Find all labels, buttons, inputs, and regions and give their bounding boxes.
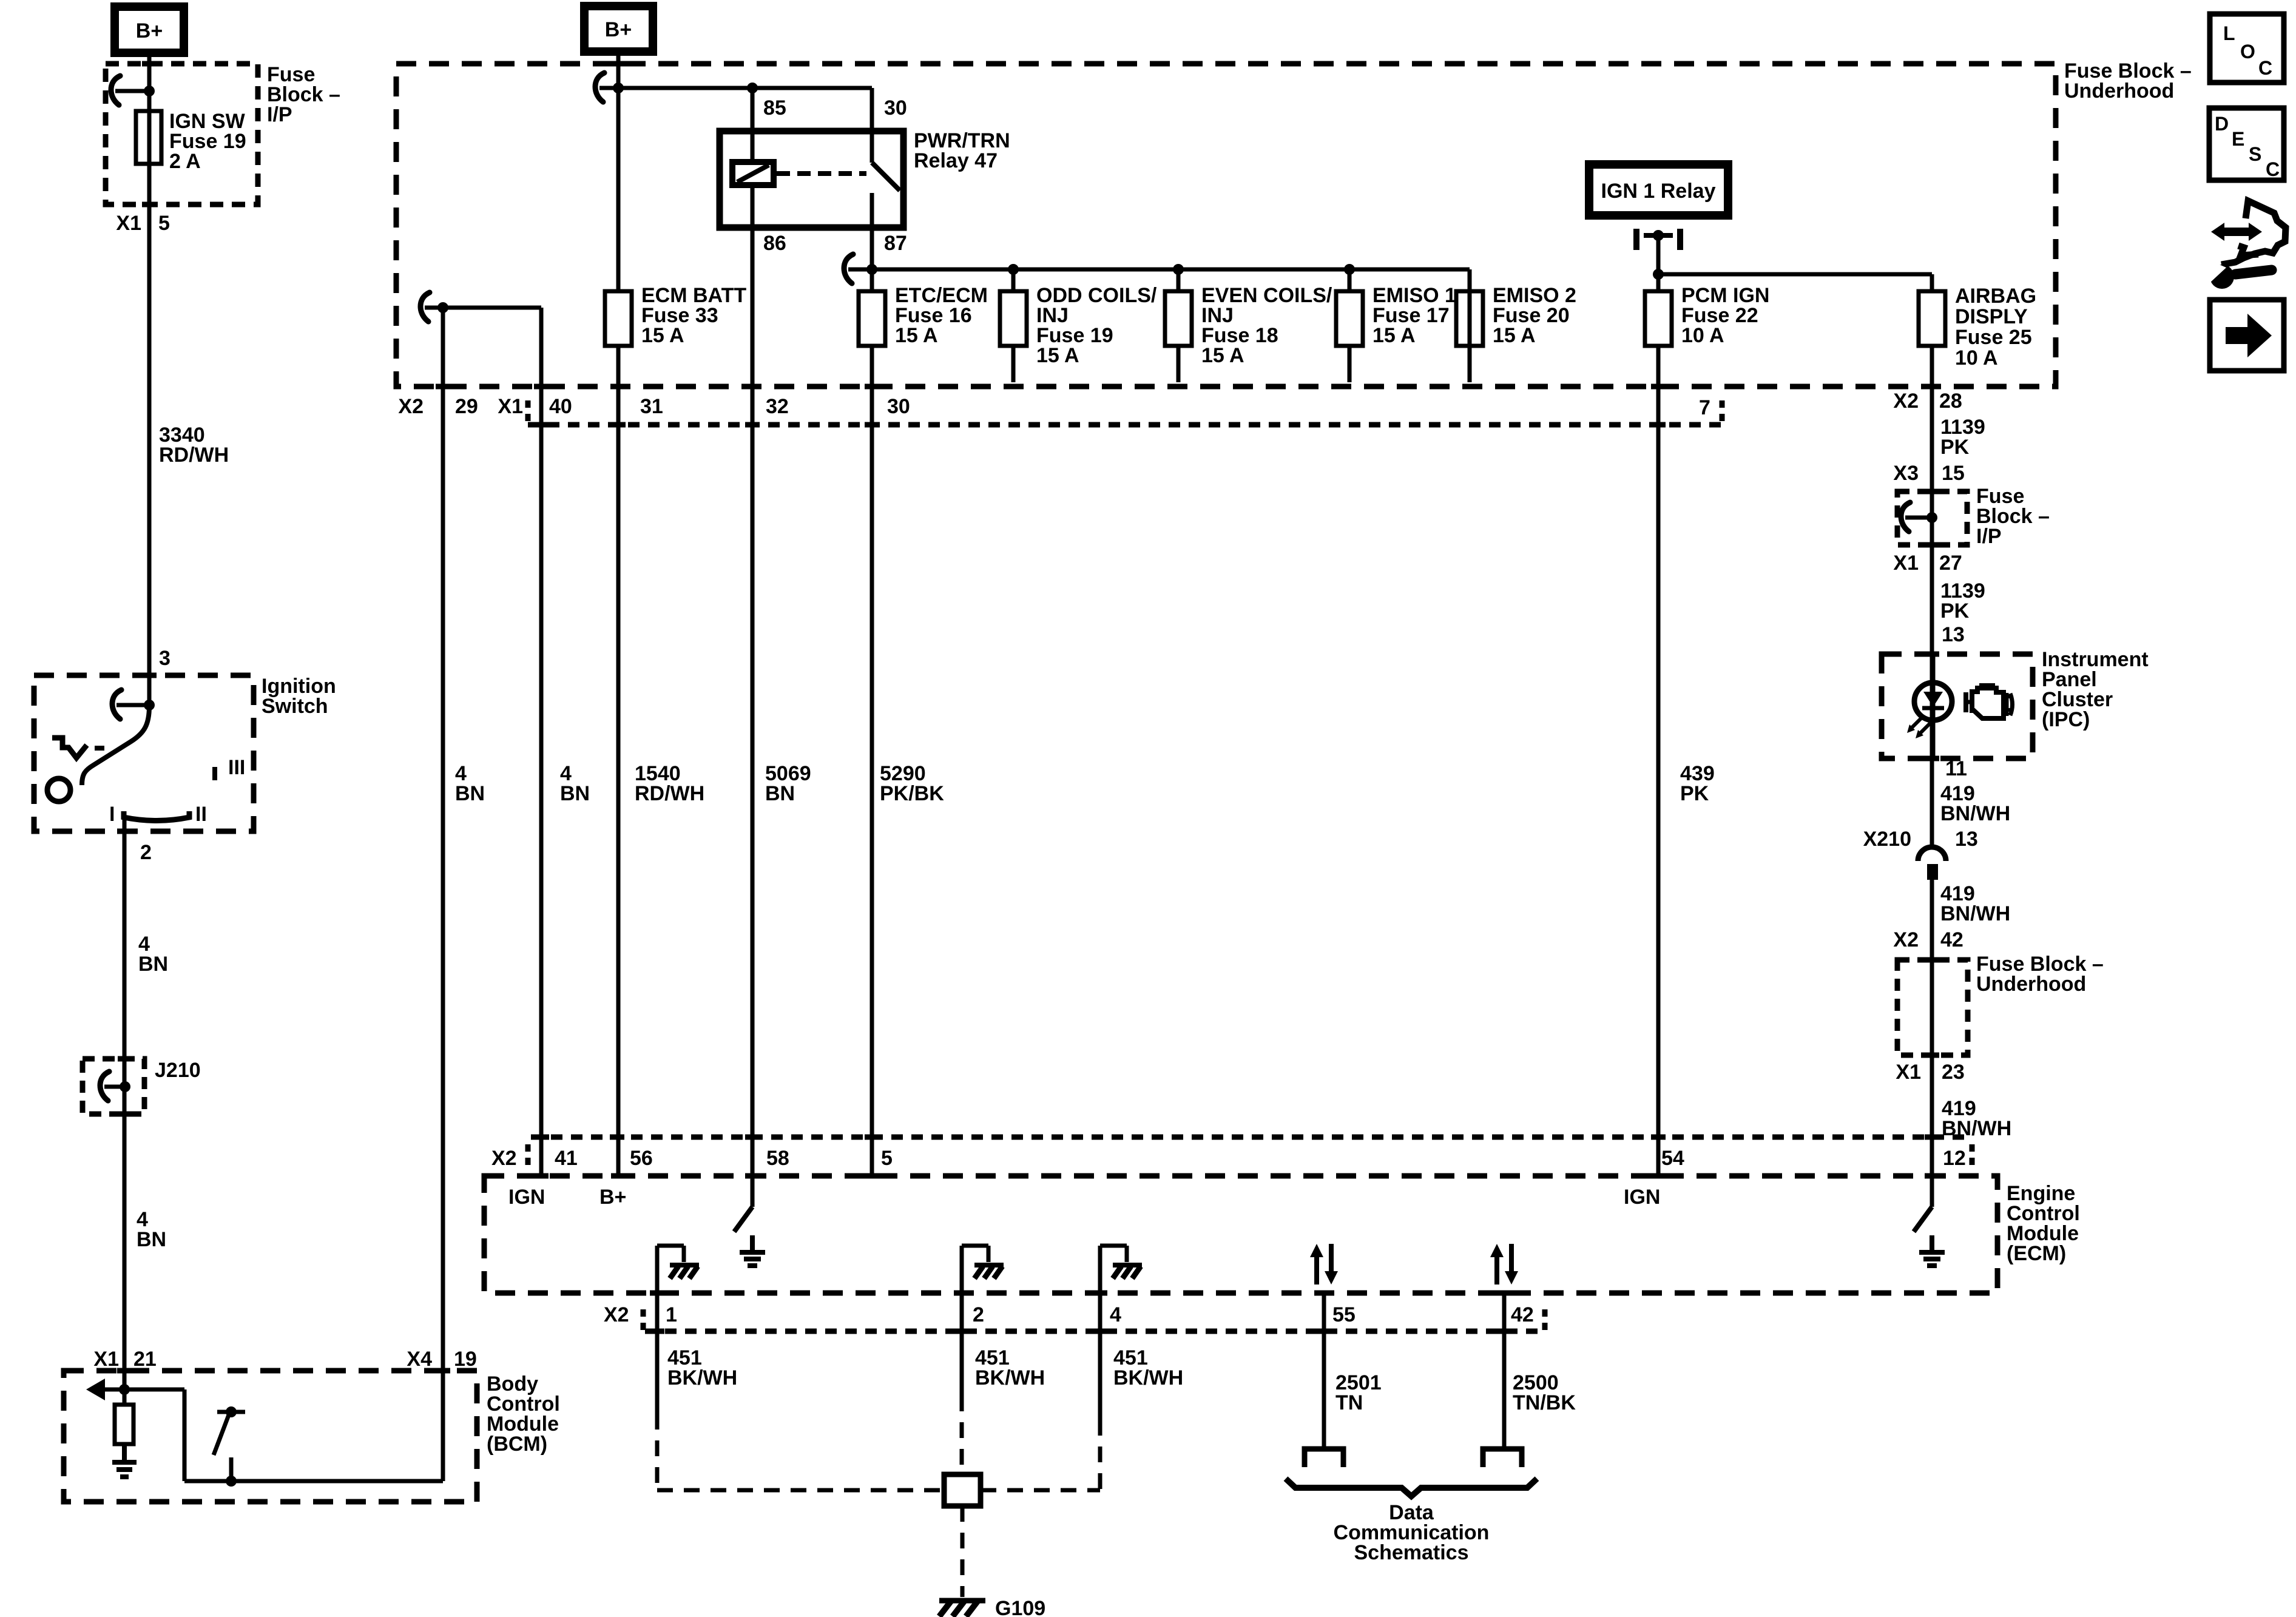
svg-text:30: 30 <box>887 395 910 418</box>
svg-text:15 A: 15 A <box>1201 344 1244 367</box>
svg-text:Underhood: Underhood <box>1976 973 2086 996</box>
svg-text:3: 3 <box>159 647 171 670</box>
svg-text:15: 15 <box>1942 462 1965 485</box>
svg-text:23: 23 <box>1942 1061 1965 1084</box>
svg-text:31: 31 <box>640 395 663 418</box>
svg-text:I: I <box>109 803 115 826</box>
svg-text:2: 2 <box>140 841 152 864</box>
svg-text:X1: X1 <box>1893 552 1919 575</box>
svg-text:B+: B+ <box>605 18 632 41</box>
svg-text:32: 32 <box>766 395 789 418</box>
svg-text:(ECM): (ECM) <box>2007 1242 2066 1265</box>
svg-text:15 A: 15 A <box>1036 344 1079 367</box>
svg-text:X1: X1 <box>116 212 141 235</box>
svg-text:IGN 1 Relay: IGN 1 Relay <box>1601 180 1716 203</box>
svg-text:87: 87 <box>884 232 907 255</box>
svg-text:BN: BN <box>137 1228 166 1251</box>
svg-text:PK: PK <box>1680 782 1709 805</box>
svg-text:X2: X2 <box>604 1303 629 1326</box>
svg-text:X1: X1 <box>1896 1061 1921 1084</box>
svg-text:X4: X4 <box>407 1348 432 1371</box>
svg-text:BN: BN <box>138 953 168 976</box>
svg-text:RD/WH: RD/WH <box>635 782 704 805</box>
svg-text:X2: X2 <box>1893 928 1919 951</box>
svg-text:42: 42 <box>1511 1303 1534 1326</box>
svg-text:X210: X210 <box>1863 828 1911 851</box>
svg-text:55: 55 <box>1332 1303 1356 1326</box>
svg-text:X1: X1 <box>498 395 523 418</box>
svg-text:10 A: 10 A <box>1681 324 1724 347</box>
svg-text:BN/WH: BN/WH <box>1942 1117 2011 1140</box>
svg-text:41: 41 <box>555 1147 578 1170</box>
svg-text:15 A: 15 A <box>641 324 684 347</box>
svg-text:29: 29 <box>455 395 478 418</box>
svg-text:Relay 47: Relay 47 <box>914 149 998 172</box>
svg-text:BN: BN <box>455 782 485 805</box>
svg-text:15 A: 15 A <box>1493 324 1536 347</box>
svg-text:2: 2 <box>973 1303 984 1326</box>
svg-text:4: 4 <box>1110 1303 1121 1326</box>
svg-text:PK: PK <box>1940 599 1970 623</box>
svg-text:D: D <box>2215 113 2229 135</box>
svg-text:5: 5 <box>158 212 170 235</box>
svg-text:X3: X3 <box>1893 462 1919 485</box>
svg-text:IGN: IGN <box>508 1186 545 1209</box>
svg-text:BK/WH: BK/WH <box>1113 1366 1183 1389</box>
svg-text:54: 54 <box>1661 1147 1684 1170</box>
svg-text:I/P: I/P <box>267 103 292 126</box>
svg-text:J210: J210 <box>155 1059 201 1082</box>
svg-text:5: 5 <box>881 1147 893 1170</box>
svg-text:X1: X1 <box>93 1348 119 1371</box>
svg-text:19: 19 <box>454 1348 477 1371</box>
svg-text:O: O <box>2240 41 2255 62</box>
svg-text:56: 56 <box>630 1147 653 1170</box>
svg-text:21: 21 <box>133 1348 157 1371</box>
svg-text:PK: PK <box>1940 436 1970 459</box>
svg-text:(BCM): (BCM) <box>487 1433 547 1456</box>
svg-text:BN/WH: BN/WH <box>1940 802 2010 825</box>
svg-text:13: 13 <box>1955 828 1978 851</box>
svg-text:1: 1 <box>666 1303 677 1326</box>
svg-text:B+: B+ <box>599 1186 626 1209</box>
svg-text:28: 28 <box>1939 390 1962 413</box>
svg-text:Switch: Switch <box>262 695 328 718</box>
svg-text:2 A: 2 A <box>169 150 201 173</box>
svg-text:X2: X2 <box>1893 390 1919 413</box>
svg-text:AIRBAG: AIRBAG <box>1955 285 2036 308</box>
svg-text:30: 30 <box>884 96 907 120</box>
svg-text:42: 42 <box>1940 928 1963 951</box>
svg-text:BN: BN <box>560 782 590 805</box>
svg-text:RD/WH: RD/WH <box>159 444 229 467</box>
svg-text:TN: TN <box>1335 1391 1363 1414</box>
svg-text:TN/BK: TN/BK <box>1513 1391 1576 1414</box>
svg-text:BK/WH: BK/WH <box>667 1366 737 1389</box>
svg-text:13: 13 <box>1942 623 1965 646</box>
svg-text:11: 11 <box>1945 757 1967 780</box>
svg-text:X2: X2 <box>491 1147 517 1170</box>
svg-text:27: 27 <box>1939 552 1962 575</box>
svg-text:BN: BN <box>765 782 795 805</box>
svg-text:S: S <box>2249 143 2261 165</box>
svg-text:86: 86 <box>763 232 786 255</box>
svg-text:10 A: 10 A <box>1955 346 1998 370</box>
svg-text:I/P: I/P <box>1976 525 2002 548</box>
svg-text:85: 85 <box>763 96 786 120</box>
svg-text:(IPC): (IPC) <box>2042 708 2090 731</box>
svg-text:Underhood: Underhood <box>2064 79 2174 103</box>
svg-text:58: 58 <box>766 1147 789 1170</box>
svg-text:G109: G109 <box>995 1597 1045 1617</box>
svg-text:DISPLY: DISPLY <box>1955 305 2028 328</box>
svg-text:12: 12 <box>1943 1147 1966 1170</box>
svg-text:Fuse 25: Fuse 25 <box>1955 326 2032 349</box>
svg-text:X2: X2 <box>398 395 424 418</box>
svg-text:E: E <box>2232 128 2244 150</box>
svg-text:C: C <box>2258 57 2272 79</box>
svg-text:BN/WH: BN/WH <box>1940 902 2010 925</box>
svg-text:BK/WH: BK/WH <box>975 1366 1045 1389</box>
svg-text:Schematics: Schematics <box>1354 1541 1469 1564</box>
svg-text:III: III <box>228 756 245 779</box>
svg-text:15 A: 15 A <box>895 324 938 347</box>
svg-text:15 A: 15 A <box>1373 324 1416 347</box>
svg-text:7: 7 <box>1699 396 1710 419</box>
svg-text:40: 40 <box>549 395 572 418</box>
svg-text:PK/BK: PK/BK <box>880 782 944 805</box>
svg-text:L: L <box>2223 22 2235 44</box>
svg-text:IGN: IGN <box>1624 1186 1660 1209</box>
svg-text:II: II <box>195 803 207 826</box>
svg-text:B+: B+ <box>136 19 163 42</box>
svg-text:C: C <box>2266 158 2280 180</box>
